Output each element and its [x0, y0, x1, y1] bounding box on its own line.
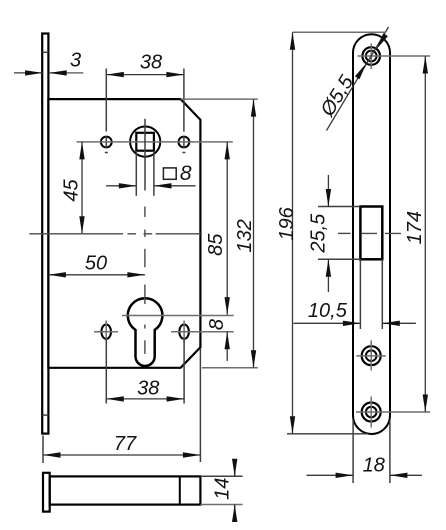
svg-text:8: 8	[206, 319, 228, 330]
svg-text:45: 45	[61, 179, 83, 202]
svg-text:85: 85	[205, 233, 227, 256]
svg-text:8: 8	[180, 162, 192, 185]
svg-text:174: 174	[404, 211, 426, 244]
svg-text:3: 3	[70, 50, 81, 72]
svg-text:10,5: 10,5	[308, 300, 348, 322]
svg-text:77: 77	[114, 433, 137, 455]
svg-text:14: 14	[212, 478, 234, 500]
svg-text:25,5: 25,5	[308, 213, 330, 254]
svg-text:18: 18	[363, 455, 385, 477]
svg-text:38: 38	[137, 377, 159, 399]
svg-text:50: 50	[85, 253, 107, 275]
svg-text:38: 38	[140, 52, 162, 74]
svg-text:132: 132	[234, 219, 256, 252]
svg-text:196: 196	[276, 206, 298, 240]
